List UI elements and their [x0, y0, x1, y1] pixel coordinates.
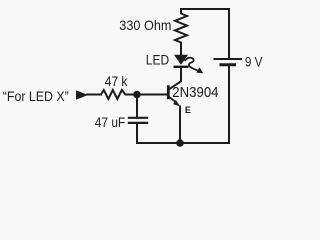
svg-text:47 k: 47 k [105, 74, 128, 89]
svg-text:2N3904: 2N3904 [172, 85, 218, 101]
svg-text:LED: LED [146, 53, 170, 68]
svg-text:“For LED X”: “For LED X” [3, 88, 69, 104]
svg-text:9 V: 9 V [245, 55, 263, 70]
svg-text:47 uF: 47 uF [95, 115, 125, 130]
svg-text:E: E [185, 105, 191, 115]
svg-text:330 Ohm: 330 Ohm [119, 17, 171, 33]
